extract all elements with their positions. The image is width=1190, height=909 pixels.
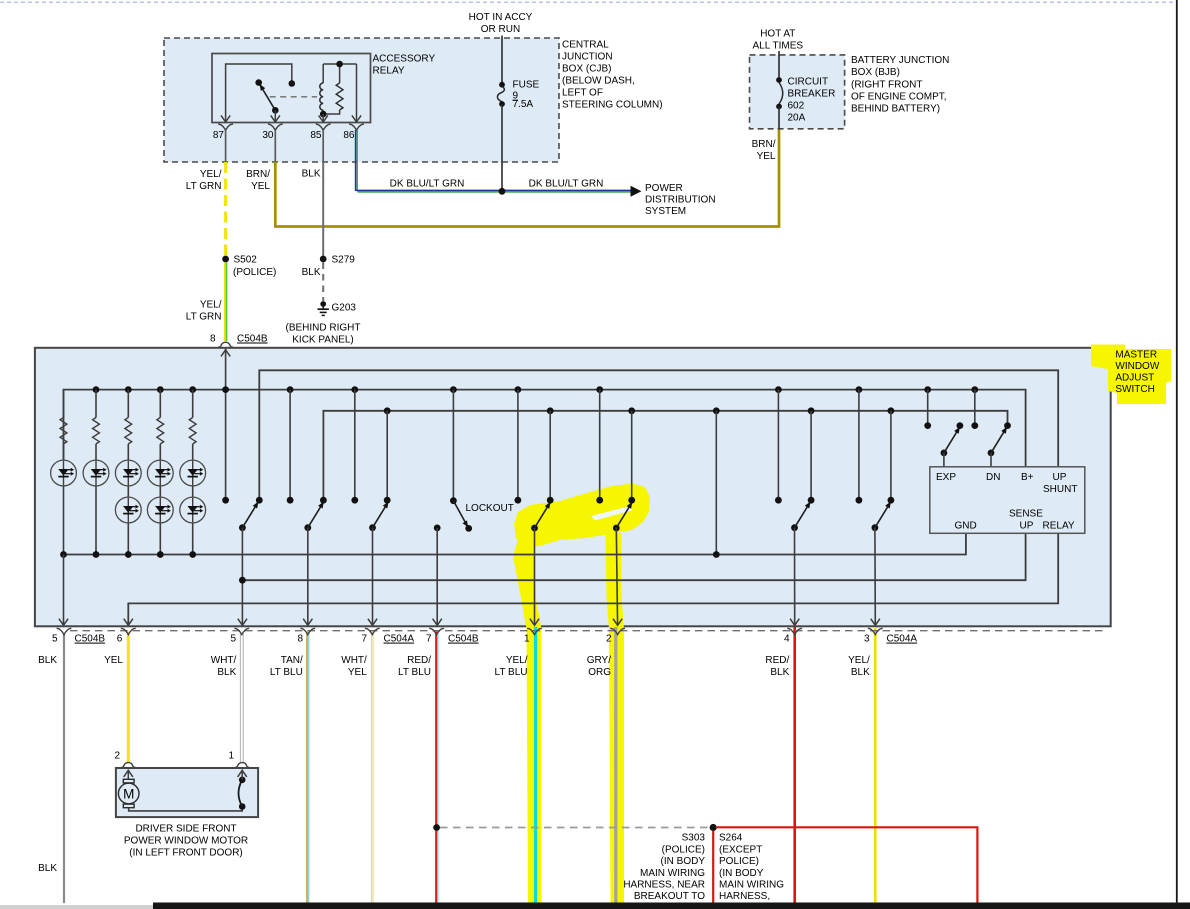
wire: fuse feed from hot [501,36,503,85]
svg-text:YEL: YEL [348,667,367,678]
relay contact 87 wire [226,64,292,122]
svg-text:SENSE: SENSE [1009,509,1043,520]
pin label 6 [117,634,123,645]
wire: YEL/LT GRN dashed (pin 87 to S502) [224,162,227,256]
pin 85 connector cup [316,124,331,130]
central junction box CJB (dashed) [164,38,559,162]
connector cup pin 5 [234,628,249,634]
svg-text:5: 5 [230,634,236,645]
switch SW5 right riser [628,407,635,503]
svg-text:(IN BODY: (IN BODY [719,868,764,879]
svg-text:MAIN WIRING: MAIN WIRING [640,868,705,879]
svg-text:BATTERY JUNCTION: BATTERY JUNCTION [851,55,949,66]
master window adjust switch box [35,348,1111,627]
switch SW2 arm [304,502,323,532]
switch SW6 arm [791,502,810,532]
pin label 3 [864,634,870,645]
label: ACCESSORY RELAY [373,54,436,77]
svg-text:GRY/: GRY/ [587,655,611,666]
label: LOCKOUT [466,503,514,514]
ground G203 [318,301,329,315]
svg-text:LT GRN: LT GRN [186,181,222,192]
svg-text:POWER WINDOW MOTOR: POWER WINDOW MOTOR [124,836,248,847]
svg-text:BLK: BLK [770,667,789,678]
switch SW3 left riser [351,386,358,503]
LED D7 (second row) [147,485,173,523]
resistor R2 column [93,386,100,460]
svg-text:MAIN WIRING: MAIN WIRING [719,880,784,891]
wire: red breakout vertical at splice [712,831,714,904]
label: DK BLU/LT GRN (right) [529,179,604,190]
wire: BLK (pin 85 to S279) [322,162,324,256]
svg-text:87: 87 [213,130,225,141]
svg-text:SHUNT: SHUNT [1043,484,1077,495]
label: S502 (POLICE) [233,255,276,279]
svg-text:DK BLU/LT GRN: DK BLU/LT GRN [390,179,465,190]
svg-text:LT BLU: LT BLU [495,667,528,678]
svg-text:BLK: BLK [38,655,57,666]
pin label 5 [52,634,58,645]
svg-text:WINDOW: WINDOW [1115,361,1159,372]
svg-text:DRIVER SIDE FRONT: DRIVER SIDE FRONT [135,824,236,835]
svg-text:UP: UP [1053,472,1067,483]
svg-text:UP: UP [1020,521,1034,532]
svg-text:LT BLU: LT BLU [270,667,303,678]
pin label 5 [230,634,236,645]
relay pin 86 stub [356,64,358,122]
EXP switch rest contact [957,422,964,429]
relay pin 87 arrow [221,115,230,122]
switch SW4 left riser [515,386,522,503]
svg-text:86: 86 [343,130,355,141]
wire: RED/LT BLU (connector 7 C504B) [436,632,438,904]
pin label 2 [606,634,612,645]
svg-text:C504B: C504B [448,634,479,645]
svg-text:YEL: YEL [251,181,270,192]
svg-text:M: M [123,786,134,801]
svg-text:BRN/: BRN/ [246,169,270,180]
relay mechanical link (dashed) [270,96,317,98]
LED D8 (second row) [180,485,206,523]
wire: lockout to connector 7 C504B [433,528,442,626]
switch SW3 arm [369,502,388,532]
wire: SW6 pivot to connector 4 [790,528,799,626]
switch SW4 right riser [547,407,554,503]
svg-text:BEHIND BATTERY): BEHIND BATTERY) [851,104,940,115]
DN switch right contact [1004,422,1011,429]
svg-text:HARNESS,: HARNESS, [719,891,770,902]
pin label 4 [784,634,790,645]
svg-text:STEERING COLUMN): STEERING COLUMN) [562,100,663,111]
node: coil bottom junction (85) [320,111,327,118]
EXP switch arm [941,427,960,467]
lockout pivot node [434,525,441,532]
bottom gray strip [0,905,153,909]
switch SW5 arm [613,502,632,532]
svg-text:C504B: C504B [75,634,106,645]
wire: WHT/BLK (connector 5 to motor pin 1) [240,634,243,763]
svg-text:HOT AT: HOT AT [760,29,795,40]
svg-text:S264: S264 [719,833,743,844]
label: YEL/ LT BLU [495,655,528,678]
connector label C504B [75,634,106,645]
resistor R1 column [60,390,67,461]
label: S279 [332,255,356,266]
svg-text:BLK: BLK [851,667,870,678]
wire: DK BLU/LT GRN horizontal run [357,191,634,193]
svg-text:LEFT OF: LEFT OF [562,88,603,99]
svg-text:C504A: C504A [384,634,415,645]
connector label C504B [448,634,479,645]
arrow to power distribution system [631,186,642,197]
wire: BLK (connector 5 C504B to ground run) [63,634,65,903]
bus: LED return rail to GND [64,533,966,554]
DN switch left riser [971,386,978,429]
pin label 87 [213,130,225,141]
svg-text:EXP: EXP [936,472,956,483]
label: GRY/ ORG [587,655,612,678]
LED D2 [83,460,109,486]
svg-text:3: 3 [864,634,870,645]
svg-text:5: 5 [52,634,58,645]
svg-text:DN: DN [986,472,1000,483]
EXP switch left riser [924,386,931,429]
label: YEL/ BLK [848,655,870,678]
wire: hot feed into breaker [778,51,780,80]
label: BRN/ YEL (breaker lead) [752,139,776,162]
wire: pin 85 inside CJB [322,130,324,162]
pin label 7 [426,634,432,645]
label: EXP DN B+ UP SHUNT [936,472,1077,495]
label: DRIVER SIDE FRONT POWER WINDOW MOTOR (IN LEFT FRONT DOOR) [124,824,248,859]
label: pin 8 C504B [210,334,268,345]
svg-text:CENTRAL: CENTRAL [562,40,609,51]
top faint dashed border [0,1,1176,3]
svg-text:TAN/: TAN/ [281,655,303,666]
label: YEL/ LT GRN (upper) [186,169,222,192]
fuse 9 7.5A [497,82,504,107]
svg-text:POWER: POWER [645,183,683,194]
svg-text:WHT/: WHT/ [211,655,237,666]
label: YEL [104,655,123,666]
label: BLK (pin 85) [302,169,321,180]
DN switch arm [988,427,1007,467]
connector cup pin 1 [527,628,542,634]
svg-text:20A: 20A [788,113,806,124]
svg-text:G203: G203 [332,303,357,314]
highlighter strip on wire 2 (GRY/ORG) [606,533,625,903]
svg-text:8: 8 [297,634,303,645]
wire: D8 to return rail [189,522,196,557]
node: relay rest contact (dead) [255,79,262,86]
LED D1 [51,460,77,486]
svg-text:BLK: BLK [38,863,57,874]
crossover riser (third rail to return rail) [713,407,720,557]
svg-text:HOT IN ACCY: HOT IN ACCY [469,12,533,23]
bottom black bar [153,903,1190,909]
svg-text:S279: S279 [332,255,356,266]
motor feed arrow pin 2 [124,770,133,780]
connector C504B-8 dome [218,342,232,347]
label: HOT IN ACCY OR RUN [469,12,533,35]
splice S303/S264 node [710,824,717,831]
wire: D2 to return rail [93,485,100,557]
connector label C504A [384,634,415,645]
switch SW5 left riser [596,386,603,503]
svg-text:WHT/: WHT/ [341,655,367,666]
connector cup pin 2 [610,628,625,634]
svg-text:BREAKER: BREAKER [788,89,836,100]
node: coil top junction [336,61,343,68]
svg-text:JUNCTION: JUNCTION [562,52,613,63]
wire: SW4 pivot to connector 1 [530,528,539,626]
accessory relay box [212,54,371,123]
motor connector dome pin 1 [235,763,249,768]
relay pin 86 arrow [352,115,361,122]
svg-text:2: 2 [606,634,612,645]
label: S303 (POLICE) column [623,833,705,903]
svg-text:BLK: BLK [217,667,236,678]
label: DK BLU/LT GRN (left) [390,179,465,190]
wire: BLK dashed (S279 to G203) [322,263,324,302]
label: BLK [38,655,57,666]
svg-text:(EXCEPT: (EXCEPT [719,844,762,855]
node: col1 top corner [60,551,67,558]
switch SW7 left riser [856,386,863,503]
svg-text:FUSE: FUSE [513,80,540,91]
pin 87 connector cup [218,124,233,130]
switch SW2 left riser [287,386,294,503]
motor connector dome pin 2 [121,763,135,768]
wire: WHT/YEL (connector 7 C504A) [372,632,374,904]
label: RED/ BLK [765,655,789,678]
svg-text:YEL/: YEL/ [848,655,870,666]
label: BRN/ YEL (upper) [246,169,270,192]
wire: dashed jumper to S303 [440,827,710,829]
relay switch arm (pin 30) [260,84,279,122]
bus: top supply rail [64,390,1026,467]
svg-text:HARNESS, NEAR: HARNESS, NEAR [623,880,705,891]
wire: feed from C504B-8 into box [225,349,227,500]
lockout switch riser [450,386,457,504]
wire: YEL/BLK (connector 3) [874,627,877,903]
switch SW7 right riser [888,407,895,503]
svg-text:8: 8 [210,334,216,345]
svg-text:OR RUN: OR RUN [481,24,520,35]
connector cup pin 6 [121,628,136,634]
svg-text:BOX (BJB): BOX (BJB) [851,67,900,78]
switch SW6 left riser [775,386,782,503]
pin label 1 [524,634,530,645]
svg-text:GND: GND [955,521,977,532]
wire: D1 to return rail [63,485,65,554]
svg-text:BLK: BLK [302,267,321,278]
switch SW2 right contact [320,497,327,504]
pin label 7 [361,634,367,645]
wire: BRN/YEL (pin 30 to circuit breaker) [275,129,779,227]
svg-text:YEL: YEL [104,655,123,666]
svg-text:RED/: RED/ [407,655,431,666]
label: POWER DISTRIBUTION SYSTEM [645,183,716,217]
splice S502 [222,256,229,263]
wire: RED/BLK (connector 4) [793,627,796,903]
switch SW1 arm [239,502,258,532]
LED D5 [180,460,206,486]
svg-text:SYSTEM: SYSTEM [645,206,686,217]
wire: pin 87 inside CJB [225,130,227,162]
LED D3 [115,460,141,486]
pin label 86 [343,130,355,141]
label: GND SENSE UP RELAY [955,509,1075,532]
svg-text:(BEHIND RIGHT: (BEHIND RIGHT [286,323,361,334]
wire: SW3 pivot to connector 7 C504A [368,528,377,626]
svg-text:(POLICE): (POLICE) [233,267,276,278]
svg-text:MASTER: MASTER [1115,350,1157,361]
svg-text:ORG: ORG [588,667,611,678]
svg-text:(IN BODY: (IN BODY [661,856,706,867]
svg-text:BRN/: BRN/ [752,139,776,150]
svg-text:RELAY: RELAY [1043,521,1075,532]
svg-text:LOCKOUT: LOCKOUT [466,503,514,514]
label: CIRCUIT BREAKER 602 20A [788,77,836,124]
wire: TAN/LT BLU (connector 8) [307,632,309,904]
wire: GRY/ORG core (connector 2, highlighted) [614,627,617,903]
label: S264 (EXCEPT POLICE) column [719,833,784,903]
arrow into box at connector 8 [221,350,230,357]
switch SW4 arm [531,502,550,532]
splice S279 [320,256,327,263]
svg-text:BREAKOUT TO: BREAKOUT TO [634,891,705,902]
pin label 85 [310,130,322,141]
relay coil shunt resistor [323,64,356,114]
label: WHT/ BLK [211,655,237,678]
wire: col1 down to connector 5 C504B [59,555,68,626]
svg-text:DISTRIBUTION: DISTRIBUTION [645,195,716,206]
highlighter strip on wire 1 (YEL/LT BLU) [513,540,542,903]
relay pin 85 arrow [319,115,328,122]
label: CENTRAL JUNCTION BOX [562,40,663,111]
svg-text:4: 4 [784,634,790,645]
svg-text:SWITCH: SWITCH [1115,384,1154,395]
motor feed arrow pin 1 [238,770,247,780]
svg-text:1: 1 [228,751,234,762]
wire: SW2 pivot to connector 8 [303,528,312,626]
resistor R3 column [125,386,132,460]
connector cup pin 8 [300,628,315,634]
label: G203 [332,303,357,314]
wire: D7 to return rail [157,522,164,557]
pin 86 connector cup [349,124,364,130]
connector row dashed line [70,630,1106,632]
svg-text:S502: S502 [234,255,258,266]
svg-text:(POLICE): (POLICE) [662,844,705,855]
svg-text:(RIGHT FRONT: (RIGHT FRONT [851,80,922,91]
svg-text:YEL/: YEL/ [200,300,222,311]
svg-text:7: 7 [426,634,432,645]
label: BLK lower [38,863,57,874]
connector cup pin 4 [787,628,802,634]
switch SW1 left contact [222,497,229,504]
LED D4 [147,460,173,486]
svg-text:LT BLU: LT BLU [398,667,431,678]
wire: YEL/LT BLU core (connector 1, highlighted) [534,627,537,903]
circuit breaker 602 20A [776,77,783,129]
pin label 30 [262,130,274,141]
LED D6 (second row) [115,485,141,523]
highlighter blob over lockout/window switches [514,484,650,548]
svg-text:ACCESSORY: ACCESSORY [373,54,436,65]
lockout switch open arm [453,501,472,532]
label: MASTER WINDOW ADJUST SWITCH [1115,350,1159,396]
svg-text:ADJUST: ADJUST [1115,373,1154,384]
node: sense rail tap [239,577,246,584]
svg-text:2: 2 [114,751,120,762]
connector cup pin 3 [868,628,883,634]
highlighter blob on MASTER WINDOW ADJUST SWITCH label [1091,345,1171,405]
right window border [1176,0,1178,903]
wire: YEL (connector 6 to motor pin 2) [127,632,130,763]
resistor R4 column [157,386,164,460]
svg-text:(IN LEFT FRONT DOOR): (IN LEFT FRONT DOOR) [129,848,243,859]
wire: motor return [129,807,243,811]
label: BLK (ground lead) [302,267,321,278]
svg-text:OF ENGINE COMPT,: OF ENGINE COMPT, [851,92,947,103]
svg-text:YEL/: YEL/ [506,655,528,666]
driver side front power window motor box [116,768,258,817]
label: HOT AT ALL TIMES [753,29,804,52]
svg-text:POLICE): POLICE) [719,856,759,867]
svg-text:BOX (CJB): BOX (CJB) [562,64,611,75]
label: BATTERY JUNCTION BOX (BJB) [851,55,949,114]
connector label C504A [887,634,918,645]
bus: third rail (to DN contact) [323,411,1007,500]
motor internal limit contact [239,777,246,810]
wire: red run to right riser [716,827,977,903]
wire: YEL/LT GRN solid (S502 to C504B) [225,262,227,341]
label: (BEHIND RIGHT KICK PANEL) [286,323,361,346]
svg-text:RELAY: RELAY [373,66,405,77]
svg-text:C504A: C504A [887,634,918,645]
svg-text:RED/: RED/ [765,655,789,666]
pin 30 connector cup [268,124,283,130]
svg-text:LT GRN: LT GRN [186,312,222,323]
svg-text:7.5A: 7.5A [513,99,534,110]
connector cup pin 7 C504B [429,628,444,634]
wire: SW7 pivot to connector 3 [871,528,880,626]
battery junction box BJB (dashed) [750,55,845,129]
svg-text:6: 6 [117,634,123,645]
electronic control unit box [930,467,1085,534]
label: motor pin 1 [228,751,234,762]
node: junction on RED/LT BLU [433,824,440,831]
svg-text:1: 1 [524,634,530,645]
label: TAN/ LT BLU [270,655,303,678]
svg-text:CIRCUIT: CIRCUIT [788,77,829,88]
svg-text:30: 30 [262,130,274,141]
svg-text:DK BLU/LT GRN: DK BLU/LT GRN [529,179,604,190]
switch SW6 right riser [808,407,815,503]
switch SW1 right contact [256,497,263,504]
node: relay fixed contact (87) [289,80,296,87]
switch SW3 right riser [384,407,391,503]
bus: second rail (to UP SHUNT) [259,370,1058,500]
resistor R5 column [189,386,196,460]
label: motor pin 2 [114,751,120,762]
node: feed junction on top rail [222,386,229,393]
bus: relay rail (from connector 6) [124,533,1058,625]
label: WHT/ YEL [341,655,367,678]
switch SW7 arm [872,502,891,532]
